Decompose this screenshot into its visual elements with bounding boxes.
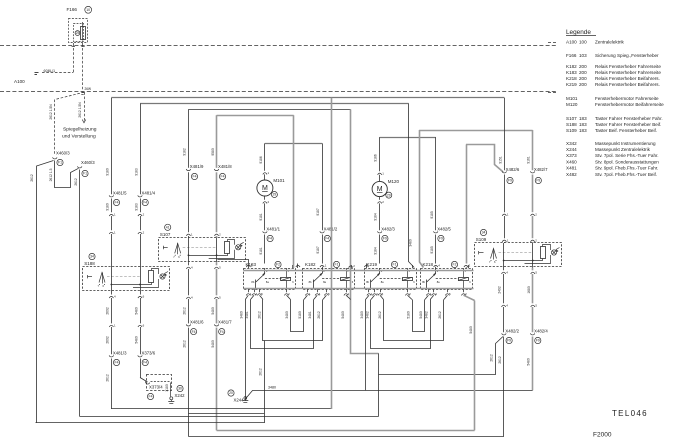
wire 2612 1.5N right dashed (to Spiegelheizung) (84, 92, 86, 120)
svg-text:3482: 3482 (365, 311, 369, 319)
svg-text:X342: X342 (566, 141, 577, 146)
svg-text:X242: X242 (175, 393, 186, 398)
svg-text:3480: 3480 (360, 311, 364, 319)
wire M101 pin1 up (264, 143, 266, 170)
svg-text:X244: X244 (566, 147, 577, 152)
circled ref 10 at F166 (85, 6, 92, 13)
svg-text:3480: 3480 (285, 311, 289, 319)
svg-text:X481/8: X481/8 (218, 164, 232, 169)
svg-text:Fensterhebermotor Beifahrersei: Fensterhebermotor Beifahrerseite (595, 102, 664, 107)
connector X481/8 (214, 169, 218, 171)
svg-text:34: 34 (482, 231, 486, 235)
svg-text:M120: M120 (388, 179, 400, 184)
wire riser to bottom B3 (378, 353, 380, 416)
connector X482/7 (530, 171, 534, 173)
wire 2612 dashed diagonal from bus (55, 92, 84, 99)
wire fuse left leg (73, 43, 75, 47)
svg-text:3480: 3480 (268, 386, 276, 390)
wire riser x331.6 rail to B1 (331, 98, 333, 409)
connector X482/3 (378, 231, 382, 233)
svg-text:F1: F1 (83, 172, 87, 176)
wire 2612 to bottom left loop (37, 161, 54, 424)
connector X481/9 (186, 169, 190, 171)
svg-text:A100: A100 (14, 79, 25, 84)
wire chain S107.1 (188, 109, 190, 167)
svg-text:3481: 3481 (308, 311, 312, 319)
svg-text:2612: 2612 (183, 307, 187, 315)
svg-text:Massepunkt Zentralelektrik: Massepunkt Zentralelektrik (595, 147, 651, 152)
svg-text:X481/9: X481/9 (190, 164, 204, 169)
svg-text:Taster Beif. Fensterheber Beif: Taster Beif. Fensterheber Beif. (595, 128, 657, 133)
wire 3480 gray to X244 (532, 337, 534, 391)
svg-text:Spiegelheizung: Spiegelheizung (63, 127, 97, 133)
svg-text:K182: K182 (305, 262, 316, 267)
wire B2 y413.8 (188, 413, 264, 415)
svg-text:26W: 26W (85, 87, 92, 91)
switch S109 (475, 243, 562, 267)
wire gray X481/6-net through relay zone (351, 109, 379, 353)
svg-text:X482/3: X482/3 (381, 226, 395, 231)
wire S107 pin4 down (188, 262, 190, 265)
svg-text:5180: 5180 (298, 311, 302, 319)
svg-text:F9: F9 (536, 179, 540, 183)
svg-text:2492: 2492 (498, 286, 502, 294)
relay K219 (365, 269, 417, 290)
svg-text:F166: F166 (566, 53, 577, 58)
wire B4 y423 (36, 422, 265, 424)
bus line 30 (A100 border top) (0, 45, 556, 47)
wire M120.1 routing (380, 137, 436, 139)
svg-text:F1: F1 (58, 161, 62, 165)
wire K183 top-left pin from S107 (248, 264, 250, 269)
svg-text:2612: 2612 (259, 368, 263, 376)
svg-text:X481/3: X481/3 (113, 350, 127, 355)
svg-text:183: 183 (579, 116, 587, 121)
wire gray rail through relays bottom (244, 288, 474, 290)
relay K182 (303, 269, 355, 290)
svg-text:F1: F1 (335, 263, 339, 267)
svg-text:3480: 3480 (240, 311, 244, 319)
svg-text:M120: M120 (566, 102, 578, 107)
svg-text:9183: 9183 (134, 203, 138, 211)
svg-text:9186: 9186 (374, 154, 378, 162)
svg-text:X460/3: X460/3 (81, 160, 95, 165)
wire B3 y416.5 (80, 416, 379, 418)
wire S107 pin5 down gray (216, 262, 218, 265)
svg-text:K218: K218 (423, 262, 434, 267)
svg-text:Zentralelektrik: Zentralelektrik (595, 40, 625, 45)
svg-text:1: 1 (251, 264, 253, 268)
wire break pin 2 (138, 214, 142, 216)
wire 3480 horizontal to X482/4 (245, 391, 532, 400)
svg-text:9187: 9187 (316, 246, 320, 254)
wire K183 coil loop to K182.1 (286, 289, 288, 292)
svg-text:X481: X481 (566, 166, 577, 171)
svg-text:608L/1: 608L/1 (44, 69, 56, 73)
svg-text:K183: K183 (566, 70, 577, 75)
svg-text:2612 1.5: 2612 1.5 (49, 168, 53, 181)
wire X482/2 branch to X460 loop (496, 337, 504, 375)
svg-text:9187: 9187 (316, 208, 320, 216)
relay K183 (244, 269, 296, 290)
svg-text:5480: 5480 (419, 311, 423, 319)
connector X481/4 (138, 195, 142, 197)
wire S188.2 routing (140, 103, 409, 105)
svg-text:X482/6: X482/6 (506, 167, 520, 172)
wire S188.2 routing to K219 (409, 104, 415, 268)
wire K218 coil to gray riser (463, 289, 465, 292)
svg-text:S109: S109 (476, 237, 487, 242)
svg-text:2612: 2612 (490, 354, 494, 362)
svg-text:F2: F2 (453, 263, 457, 267)
svg-text:F4: F4 (115, 201, 119, 205)
svg-text:Massepunkt Instrumentierung: Massepunkt Instrumentierung (595, 141, 656, 146)
wire 2612 to bottom (111, 359, 113, 410)
wire S109 pin4 down (503, 268, 505, 271)
wire chain S107.2 gray (216, 115, 218, 168)
svg-text:9186: 9186 (259, 156, 263, 164)
svg-text:F4: F4 (221, 175, 225, 179)
svg-text:9180: 9180 (106, 168, 110, 176)
wire fuse right leg (82, 43, 84, 47)
svg-text:Legende: Legende (566, 29, 591, 36)
svg-text:X482/2: X482/2 (505, 328, 519, 333)
wire chain S188.2 (140, 104, 142, 195)
svg-text:200: 200 (579, 70, 587, 75)
wire 2612 1.5N left dashed (54, 100, 56, 156)
wire S109 pin5 down gray (532, 268, 534, 271)
legend bus stubs (548, 42, 557, 44)
wire K183.4 loop to K182.4 (254, 289, 256, 292)
svg-text:9181: 9181 (259, 247, 263, 255)
switch S188 (83, 267, 170, 291)
wire K183.1 to ground X244 (248, 289, 250, 292)
wire K182 coil to gray net (346, 289, 348, 292)
svg-text:20: 20 (229, 391, 233, 395)
svg-text:A100: A100 (566, 40, 577, 45)
wire X482/5 chain (435, 137, 437, 230)
svg-text:S109: S109 (566, 128, 577, 133)
motor M101 (257, 180, 273, 196)
wire K219.5 loop to K218.5 (380, 289, 382, 292)
svg-text:30: 30 (178, 387, 182, 391)
svg-text:F4: F4 (325, 237, 329, 241)
svg-text:F9: F9 (508, 179, 512, 183)
ground X244 (245, 399, 247, 401)
svg-text:K219: K219 (566, 82, 577, 87)
svg-text:Stv. 7pol. Serie Fhs.-Tuer Fah: Stv. 7pol. Serie Fhs.-Tuer Fahr. (595, 153, 659, 158)
wire K219.4 loop to K218.4 (374, 289, 376, 292)
svg-text:3481: 3481 (245, 311, 249, 319)
svg-text:25: 25 (76, 31, 80, 35)
connector X482/4 (530, 333, 534, 335)
svg-text:3482: 3482 (425, 311, 429, 319)
svg-text:S107: S107 (160, 232, 171, 237)
svg-text:F4: F4 (115, 361, 119, 365)
svg-text:S188: S188 (566, 122, 577, 127)
svg-text:TEL046: TEL046 (612, 409, 648, 418)
ground X242 (170, 397, 173, 400)
svg-text:2602: 2602 (106, 307, 110, 315)
svg-text:9180: 9180 (106, 203, 110, 211)
svg-text:M101: M101 (566, 96, 578, 101)
svg-text:29: 29 (387, 193, 391, 197)
svg-text:Taster Fahrer Fensterheber Fah: Taster Fahrer Fensterheber Fahr. (595, 116, 663, 121)
svg-text:X460: X460 (566, 159, 577, 164)
svg-text:F2000: F2000 (593, 432, 612, 439)
wire 2612 right to bottom loop (79, 170, 81, 417)
svg-text:Fensterhebermotor Fahrerseite: Fensterhebermotor Fahrerseite (595, 96, 659, 101)
fuse F166 (69, 19, 88, 43)
wire break pin 1 (109, 214, 113, 216)
svg-text:103: 103 (579, 53, 587, 58)
wire X482/2 branch to bottom (503, 337, 505, 437)
svg-text:5480: 5480 (134, 336, 138, 344)
wire K218 to X482/6 routing gray (466, 145, 503, 173)
wire K182 top-left pin stub (297, 264, 299, 269)
svg-text:Relais Fensterheber Fahrerseit: Relais Fensterheber Fahrerseite (595, 64, 661, 69)
svg-text:X481/1: X481/1 (266, 226, 280, 231)
svg-text:200: 200 (579, 76, 587, 81)
svg-text:2612: 2612 (257, 311, 261, 319)
wire to X373/4 (140, 359, 142, 378)
svg-text:9185: 9185 (430, 211, 434, 219)
relay K218 (421, 269, 473, 290)
connector X481/5 (109, 195, 113, 197)
svg-text:F4: F4 (143, 361, 147, 365)
svg-text:F4: F4 (220, 330, 224, 334)
wire K218 left feed gray (420, 130, 424, 268)
svg-text:9161: 9161 (527, 156, 531, 164)
connector X482/2 (502, 333, 506, 335)
svg-text:Relais Fensterheber Beifahrers: Relais Fensterheber Beifahrers. (595, 76, 660, 81)
wire K183.5 loop to K182.5 (259, 289, 261, 292)
svg-text:2602: 2602 (106, 336, 110, 344)
wire S107.2 routing gray (217, 115, 294, 117)
wire B5 y430.4 gray (217, 430, 475, 432)
svg-text:5480: 5480 (527, 358, 531, 366)
svg-text:200: 200 (579, 82, 587, 87)
svg-text:5480: 5480 (341, 311, 345, 319)
svg-text:S107: S107 (566, 116, 577, 121)
wire M101 pin2 down (264, 196, 266, 200)
svg-text:F4: F4 (192, 330, 196, 334)
wire y374.7 link (379, 374, 496, 376)
wire S107 exit to K183 (217, 260, 248, 264)
wire gray rail through relays top (244, 270, 474, 272)
svg-text:X373: X373 (566, 153, 577, 158)
svg-text:X481/4: X481/4 (142, 190, 156, 195)
svg-text:F166: F166 (67, 7, 78, 12)
svg-text:S188: S188 (84, 261, 95, 266)
svg-text:2612: 2612 (74, 178, 78, 186)
svg-text:9151: 9151 (498, 156, 502, 164)
svg-text:K182: K182 (566, 64, 577, 69)
svg-text:X460/3: X460/3 (56, 151, 70, 156)
svg-text:X373/4: X373/4 (149, 384, 163, 389)
wire B6 y436.5 (188, 436, 503, 438)
wire M120 pin1 up (379, 137, 381, 171)
svg-text:2612: 2612 (183, 340, 187, 348)
svg-text:Stv. 7pol. Fheb.Fhs.-Tuer Beif: Stv. 7pol. Fheb.Fhs.-Tuer Beif. (595, 172, 657, 177)
wire 26W from fuse to bus (82, 48, 84, 92)
svg-text:Relais Fensterheber Beifahrers: Relais Fensterheber Beifahrers. (595, 82, 660, 87)
svg-text:K218: K218 (566, 76, 577, 81)
svg-text:2612: 2612 (378, 311, 382, 319)
wire K218 to X482/7 routing gray (419, 130, 532, 132)
svg-text:Taster Fahrer Fensterheber Bei: Taster Fahrer Fensterheber Beif. (595, 122, 661, 127)
wire K219 coil loop to K218.1 (407, 289, 409, 292)
svg-text:9182: 9182 (183, 148, 187, 156)
wire S107.1 routing (188, 109, 350, 111)
svg-text:2612: 2612 (317, 311, 321, 319)
connector X373/6 (140, 327, 142, 354)
svg-text:2612 1.5N: 2612 1.5N (78, 102, 82, 118)
svg-text:X482/7: X482/7 (534, 167, 548, 172)
svg-text:5180: 5180 (406, 311, 410, 319)
svg-text:3180: 3180 (165, 384, 169, 392)
svg-text:200: 200 (579, 64, 587, 69)
svg-text:183: 183 (579, 128, 587, 133)
svg-text:F4: F4 (149, 395, 153, 399)
wire riser 2612 to B4 (264, 341, 266, 423)
wire X482/7 chain down gray (532, 130, 534, 170)
svg-text:2612: 2612 (30, 174, 34, 182)
svg-text:X481/5: X481/5 (113, 190, 127, 195)
svg-text:1680: 1680 (527, 286, 531, 294)
wire S188 pin4 down (111, 292, 113, 295)
svg-text:100: 100 (579, 40, 587, 45)
bus line (A100 border bottom) (0, 91, 556, 93)
switch S107 (159, 238, 246, 262)
svg-text:Sicherung Spieg.,Fensterheber: Sicherung Spieg.,Fensterheber (595, 53, 659, 58)
svg-text:5480: 5480 (211, 340, 215, 348)
svg-text:2612: 2612 (498, 356, 502, 364)
wire supply rail from S188.1 to X482/6 (111, 97, 504, 99)
svg-text:X481/7: X481/7 (218, 319, 232, 324)
wire S188 pin6 down (140, 292, 142, 295)
svg-text:F9: F9 (439, 237, 443, 241)
svg-text:Relais Fensterheber Fahrerseit: Relais Fensterheber Fahrerseite (595, 70, 661, 75)
wire K219 top-left pin stub (366, 264, 368, 269)
svg-text:10: 10 (86, 8, 90, 12)
svg-text:F4: F4 (268, 237, 272, 241)
connector X481/3 (111, 327, 113, 354)
wire X482/6 chain down (504, 98, 506, 170)
svg-text:X481/6: X481/6 (190, 319, 204, 324)
svg-text:9184: 9184 (374, 247, 378, 255)
connector X482/6 (502, 171, 506, 173)
wire chain S188.1 (111, 98, 113, 194)
svg-text:Stv. 8pol. Sonderausstattungen: Stv. 8pol. Sonderausstattungen (595, 159, 659, 164)
svg-text:2612: 2612 (106, 374, 110, 382)
svg-text:X244: X244 (234, 398, 245, 403)
wire K219.1 to 3480 line (368, 289, 370, 292)
connector X481/7 (214, 324, 218, 326)
svg-text:2612 1.5N: 2612 1.5N (49, 104, 53, 120)
connector X460/3 (right) (78, 166, 82, 168)
svg-text:F9: F9 (536, 339, 540, 343)
svg-text:X373/6: X373/6 (142, 350, 156, 355)
svg-text:M101: M101 (273, 178, 285, 183)
svg-text:3480: 3480 (409, 239, 413, 247)
svg-text:183: 183 (579, 122, 587, 127)
svg-text:F1: F1 (393, 263, 397, 267)
svg-text:9580: 9580 (211, 148, 215, 156)
svg-text:F2: F2 (276, 263, 280, 267)
wire B1 y409 (111, 408, 331, 410)
svg-text:Stv. 9pol. Fheb.Fhs.-Tuer Fahr: Stv. 9pol. Fheb.Fhs.-Tuer Fahr. (595, 166, 658, 171)
connector X373/4 box (147, 375, 172, 391)
svg-text:9185: 9185 (430, 246, 434, 254)
connector X481/6 (186, 324, 190, 326)
wire 608L/1 (73, 48, 75, 73)
svg-text:F9: F9 (507, 339, 511, 343)
wire M120 pin2 down (379, 197, 381, 200)
svg-text:41: 41 (166, 226, 170, 230)
svg-text:2612: 2612 (438, 311, 442, 319)
svg-text:X482/5: X482/5 (437, 226, 451, 231)
wire jog to connector X460/3 (right) (55, 161, 79, 188)
svg-text:X482/4: X482/4 (534, 328, 548, 333)
svg-text:34: 34 (90, 255, 94, 259)
wire gray riser to B5 (474, 301, 476, 431)
svg-text:und Verstellung: und Verstellung (62, 133, 96, 139)
svg-text:X482: X482 (566, 172, 577, 177)
wire M101.1 routing (265, 143, 322, 145)
svg-text:5480: 5480 (211, 307, 215, 315)
wire 3180 to ground (170, 383, 172, 397)
wire K218 right feed gray (466, 144, 468, 263)
svg-text:29: 29 (273, 193, 277, 197)
svg-text:F4: F4 (193, 175, 197, 179)
svg-text:F4: F4 (143, 201, 147, 205)
wire X481/2 chain (322, 143, 324, 230)
svg-text:9183: 9183 (134, 168, 138, 176)
svg-text:F9: F9 (383, 237, 387, 241)
svg-text:9184: 9184 (374, 213, 378, 221)
connector X481/1 (263, 231, 267, 233)
motor M120 (372, 181, 387, 196)
svg-text:5480: 5480 (134, 307, 138, 315)
connector X460/3 (left) (53, 157, 57, 159)
svg-text:9181: 9181 (259, 213, 263, 221)
wire gray S107.2 to K183 right (293, 115, 295, 268)
svg-text:5480: 5480 (469, 326, 473, 334)
